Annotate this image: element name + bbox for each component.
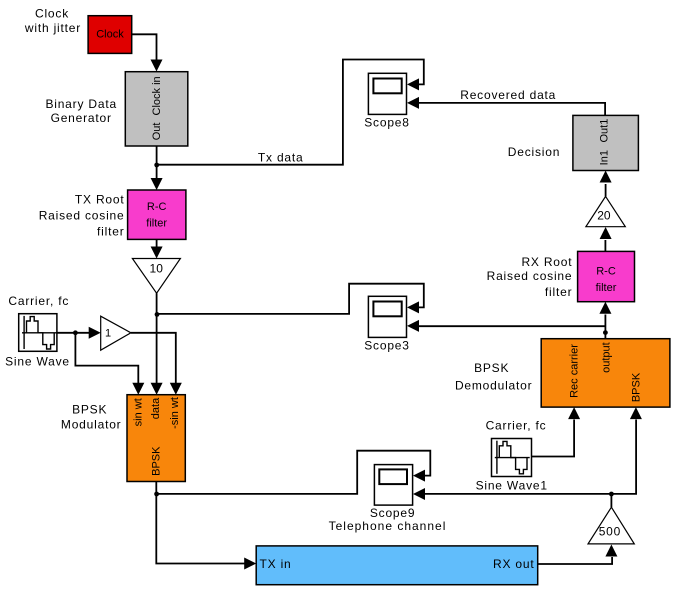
svg-text:Modulator: Modulator	[61, 418, 122, 432]
svg-text:Tx data: Tx data	[258, 151, 304, 165]
svg-text:Carrier, fc: Carrier, fc	[486, 419, 547, 433]
svg-text:Raised cosine: Raised cosine	[39, 209, 125, 223]
svg-text:Sine Wave: Sine Wave	[5, 355, 70, 369]
svg-text:500: 500	[599, 525, 621, 539]
svg-text:R-C: R-C	[596, 266, 616, 278]
svg-text:Generator: Generator	[51, 111, 112, 125]
svg-text:1: 1	[105, 328, 111, 340]
svg-text:Telephone channel: Telephone channel	[329, 519, 447, 533]
svg-text:R-C: R-C	[147, 201, 167, 213]
svg-text:sin wt: sin wt	[133, 398, 145, 426]
svg-text:-sin wt: -sin wt	[169, 397, 181, 429]
svg-text:Demodulator: Demodulator	[455, 379, 533, 393]
svg-text:filter: filter	[545, 285, 572, 299]
svg-text:10: 10	[150, 261, 164, 275]
svg-text:Sine Wave1: Sine Wave1	[476, 479, 548, 493]
svg-text:TX in: TX in	[260, 557, 292, 571]
svg-text:Out: Out	[151, 123, 163, 141]
svg-text:Clock: Clock	[35, 7, 69, 21]
svg-text:Clock: Clock	[96, 29, 124, 41]
svg-text:Binary Data: Binary Data	[45, 97, 117, 111]
svg-text:data: data	[150, 397, 162, 419]
svg-text:RX Root: RX Root	[521, 255, 572, 269]
svg-text:Scope3: Scope3	[364, 339, 410, 353]
svg-text:Decision: Decision	[508, 145, 560, 159]
svg-text:BPSK: BPSK	[150, 446, 162, 476]
svg-text:filter: filter	[146, 218, 167, 230]
svg-text:with jitter: with jitter	[24, 21, 81, 35]
svg-text:TX Root: TX Root	[75, 193, 125, 207]
svg-text:BPSK: BPSK	[474, 361, 509, 375]
svg-text:Raised cosine: Raised cosine	[487, 269, 573, 283]
svg-text:BPSK: BPSK	[72, 403, 107, 417]
svg-text:20: 20	[597, 209, 611, 223]
svg-text:filter: filter	[97, 225, 124, 239]
svg-text:output: output	[601, 342, 613, 373]
svg-text:Scope9: Scope9	[370, 506, 416, 520]
svg-text:Clock in: Clock in	[151, 76, 163, 115]
svg-text:Scope8: Scope8	[364, 116, 410, 130]
svg-text:Out1: Out1	[599, 119, 611, 143]
svg-text:Recovered data: Recovered data	[460, 88, 556, 102]
svg-text:Carrier, fc: Carrier, fc	[8, 294, 69, 308]
svg-text:RX out: RX out	[493, 557, 535, 571]
svg-text:BPSK: BPSK	[630, 372, 642, 402]
svg-text:Rec carrier: Rec carrier	[569, 344, 581, 398]
svg-text:In1: In1	[599, 150, 611, 165]
svg-text:filter: filter	[596, 282, 617, 294]
